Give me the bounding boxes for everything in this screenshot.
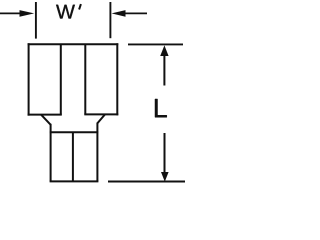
terminal body right edge (116, 43, 118, 115)
dimension W' right arrow shaft (125, 12, 148, 14)
barrel center line (72, 132, 74, 181)
barrel bottom edge (50, 180, 99, 182)
right chamfer transition (97, 114, 105, 123)
dimension W' right extension line (109, 2, 111, 38)
label W prime mark (79, 4, 81, 9)
dimension L bottom extension line (108, 181, 185, 183)
dimension W' left arrow shaft (0, 12, 21, 14)
barrel seam line (50, 131, 98, 133)
barrel left edge (50, 124, 52, 182)
terminal body bottom edge right segment (84, 113, 118, 115)
dimension W' left extension line (35, 2, 37, 39)
dimension L lower shaft (164, 133, 166, 175)
terminal slot left inner edge (60, 44, 62, 114)
terminal body left edge (28, 43, 30, 115)
dimension L upper shaft (163, 55, 165, 86)
terminal slot right inner edge (84, 44, 86, 114)
label L (155, 99, 167, 117)
terminal body top edge (28, 43, 119, 45)
barrel right edge (96, 123, 98, 182)
dimension L down arrowhead (161, 172, 169, 182)
dimension W' left arrowhead (20, 10, 35, 17)
dimension L top extension line (128, 43, 183, 45)
label W (56, 5, 75, 19)
dimension L up arrowhead (160, 45, 168, 56)
terminal body bottom edge left segment (28, 114, 62, 116)
left chamfer transition (41, 115, 51, 125)
dimension W' right arrowhead (112, 10, 126, 17)
